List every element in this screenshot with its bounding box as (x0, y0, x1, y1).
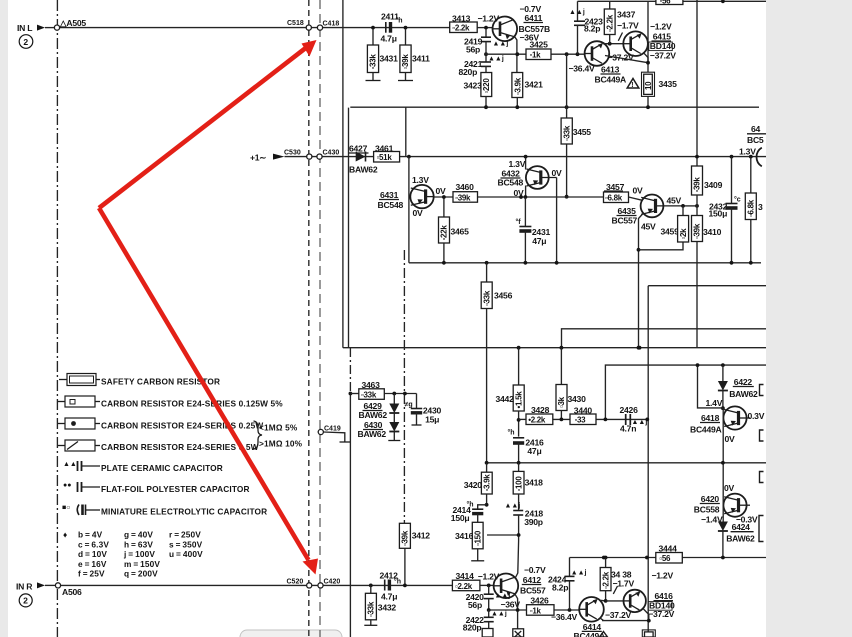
capacitor C2420 56p (488, 585, 490, 594)
svg-text:▫39k: ▫39k (455, 193, 471, 202)
svg-text:▫2k: ▫2k (679, 228, 688, 240)
svg-text:q = 200V: q = 200V (124, 569, 158, 579)
svg-text:C530: C530 (284, 150, 301, 157)
svg-text:BAW62: BAW62 (359, 410, 388, 420)
svg-text:3459: 3459 (661, 227, 680, 237)
wire 6415 emitter to 3435 (644, 53, 649, 63)
svg-text:BC5: BC5 (747, 135, 764, 145)
node C518 (306, 25, 311, 30)
svg-text:0.3V: 0.3V (748, 411, 765, 421)
svg-text:4.7μ: 4.7μ (381, 34, 397, 44)
svg-text:820p: 820p (459, 67, 478, 77)
svg-text:▫56: ▫56 (660, 0, 672, 6)
junction (604, 418, 608, 422)
svg-text:3416: 3416 (455, 531, 474, 541)
svg-text:0V: 0V (514, 188, 525, 198)
junction (517, 533, 521, 537)
junction 6412 base (487, 584, 491, 588)
resistor R3437 2.2k (609, 1, 611, 9)
wire 6432 base down (556, 178, 558, 263)
svg-text:>1MΩ 10%: >1MΩ 10% (259, 439, 303, 449)
svg-text:3430: 3430 (568, 394, 587, 404)
svg-text:3455: 3455 (573, 127, 592, 137)
svg-text:°c: °c (734, 196, 741, 204)
junction (442, 195, 446, 199)
svg-text:MINIATURE ELECTROLYTIC CAPACIT: MINIATURE ELECTROLYTIC CAPACITOR (101, 507, 267, 517)
svg-text:15μ: 15μ (425, 415, 439, 425)
svg-text:1.3V: 1.3V (739, 147, 756, 157)
svg-text:3425: 3425 (530, 40, 549, 50)
transistor Q6414 BC449A (579, 597, 604, 622)
svg-text:r = 250V: r = 250V (169, 530, 201, 540)
svg-text:−1.2V: −1.2V (652, 571, 674, 581)
capacitor C2422 820p (488, 610, 490, 617)
resistor R3434 partial (642, 630, 655, 637)
junction (645, 556, 649, 560)
svg-text:150μ: 150μ (709, 209, 728, 219)
svg-text:3465: 3465 (451, 227, 470, 237)
svg-text:6413: 6413 (601, 65, 620, 75)
slash 6416 base (613, 586, 617, 594)
junction (646, 105, 650, 109)
svg-text:−1.2V: −1.2V (478, 14, 500, 24)
svg-text:6415: 6415 (653, 32, 672, 42)
wire 6416 collector down (643, 608, 649, 620)
junction 2423 bottom (576, 52, 580, 56)
svg-text:FLAT-FOIL POLYESTER CAPACITOR: FLAT-FOIL POLYESTER CAPACITOR (101, 484, 250, 494)
svg-text:▫56: ▫56 (659, 554, 671, 563)
node C430 (317, 154, 322, 159)
svg-text:3431: 3431 (380, 54, 399, 64)
svg-text:▫39k: ▫39k (693, 177, 702, 193)
junction (721, 406, 725, 410)
svg-text:▲▲j: ▲▲j (493, 41, 509, 48)
svg-text:−36.4V: −36.4V (551, 612, 577, 622)
svg-text:2426: 2426 (620, 405, 639, 415)
arrow +1 (273, 154, 285, 160)
junction (519, 195, 523, 199)
svg-text:BC548: BC548 (378, 200, 404, 210)
svg-text:−36.4V: −36.4V (569, 64, 595, 74)
capacitor C2421 820p (485, 54, 487, 62)
wire lower emitter rail y620 (602, 620, 649, 622)
transistor Q6420 BC558 (723, 494, 746, 517)
svg-text:▫33k: ▫33k (361, 390, 377, 399)
svg-text:56p: 56p (468, 600, 482, 610)
svg-text:▫39k: ▫39k (401, 530, 410, 546)
wire 6414 emitter down (600, 618, 603, 620)
wire tone node y419 (553, 418, 648, 420)
svg-text:3409: 3409 (704, 180, 723, 190)
svg-text:4.7n: 4.7n (620, 424, 636, 434)
dashed bus line C4xx (319, 0, 321, 637)
junction (695, 204, 699, 208)
svg-text:0V: 0V (436, 186, 447, 196)
svg-text:▲▲j: ▲▲j (495, 593, 511, 600)
connector 2 circled lower (19, 594, 32, 607)
svg-text:▫100: ▫100 (514, 476, 523, 492)
svg-text:♦: ♦ (63, 530, 67, 540)
wire 6435 collector row (683, 205, 697, 207)
resistor R3408 6.8k (749, 155, 753, 159)
svg-text:•2.2k: •2.2k (528, 416, 546, 425)
svg-text:▫22k: ▫22k (440, 225, 449, 241)
resistor R3420 3.9k (485, 461, 489, 465)
svg-text:6431: 6431 (380, 190, 399, 200)
resistor R3416 150 (477, 514, 479, 523)
junction 2412 right (403, 584, 407, 588)
svg-text:IN L: IN L (17, 23, 32, 33)
arrow IN R (37, 582, 45, 588)
junction (517, 418, 521, 422)
svg-text:47μ: 47μ (532, 236, 546, 246)
svg-text:▫39k: ▫39k (401, 54, 410, 70)
resistor R3430 3k (560, 346, 564, 350)
svg-text:▫6.8k: ▫6.8k (605, 194, 623, 203)
node C419 (318, 429, 323, 434)
svg-text:8.2p: 8.2p (552, 583, 568, 593)
svg-text:▫3.9k: ▫3.9k (482, 474, 491, 492)
arrow IN L (37, 25, 45, 31)
junction (608, 42, 612, 46)
svg-text:CARBON RESISTOR E24-SERIES 0.5: CARBON RESISTOR E24-SERIES 0.5W (101, 442, 259, 452)
svg-text:BC557: BC557 (612, 216, 638, 226)
svg-text:3435: 3435 (659, 79, 678, 89)
svg-text:°f: °f (516, 218, 522, 226)
svg-text:▲▲j: ▲▲j (569, 9, 585, 16)
wire top rail drop x648 (647, 1, 649, 72)
svg-text:j = 100V: j = 100V (123, 549, 155, 559)
svg-text:▫51k: ▫51k (377, 153, 393, 162)
svg-text:2: 2 (23, 596, 28, 606)
svg-text:3414: 3414 (456, 571, 475, 581)
svg-text:6435: 6435 (618, 206, 637, 216)
warning triangle lower partial (600, 632, 608, 637)
svg-text:BAW62: BAW62 (349, 165, 378, 175)
lower module border vertical (647, 286, 649, 637)
diode D6429 BAW62 (393, 394, 395, 404)
bottom tooltip fragment (240, 630, 342, 637)
svg-text:C518: C518 (287, 20, 304, 27)
junction 3463 left (349, 392, 353, 396)
junction 6411 base (484, 26, 488, 30)
junction (515, 105, 519, 109)
svg-text:150μ: 150μ (451, 513, 470, 523)
svg-text:6422: 6422 (734, 377, 753, 387)
diode D6422 BAW62 (721, 363, 725, 367)
right gray margin (766, 0, 852, 637)
module border left inner (348, 108, 350, 348)
svg-text:0V: 0V (633, 186, 644, 196)
svg-text:▫33: ▫33 (575, 416, 587, 425)
svg-text:●●: ●● (63, 482, 71, 489)
wire 6414 collector right (600, 599, 605, 602)
svg-text:▫2.2k: ▫2.2k (606, 14, 615, 32)
svg-text:1.3V: 1.3V (412, 175, 429, 185)
transistor Q6435 BC557 (641, 195, 664, 218)
junction (696, 363, 700, 367)
node C520 (307, 583, 312, 588)
svg-text:▫220: ▫220 (482, 78, 491, 94)
svg-text:64: 64 (751, 124, 761, 134)
section chain line left (56, 0, 58, 637)
chain line mid (405, 107, 407, 157)
svg-text:C430: C430 (323, 150, 340, 157)
svg-text:▫33k: ▫33k (562, 125, 571, 141)
svg-text:1.4V: 1.4V (706, 398, 723, 408)
junction x649 y620 (647, 619, 651, 623)
wire rail y326 (562, 329, 767, 348)
svg-text:6416: 6416 (655, 591, 674, 601)
capacitor C2412 4.7u (384, 580, 386, 591)
wire y535 stub (487, 534, 519, 536)
end bar C419 (340, 441, 351, 443)
svg-text:≠g: ≠g (405, 402, 413, 409)
connector 2 circled (19, 35, 33, 49)
wire 6413 collector to 6415 base (603, 43, 623, 45)
svg-text:s = 350V: s = 350V (169, 539, 203, 549)
junction (484, 105, 488, 109)
junction (487, 608, 491, 612)
svg-text:6424: 6424 (732, 522, 751, 532)
svg-text:°h: °h (396, 17, 403, 25)
junction (645, 418, 649, 422)
svg-text:f = 25V: f = 25V (78, 569, 105, 579)
svg-text:d = 10V: d = 10V (78, 549, 107, 559)
junction (403, 392, 407, 396)
wire output node y557 (570, 557, 767, 559)
node A505 (54, 25, 59, 30)
resistor R3411 39k (405, 29, 407, 45)
svg-text:BAW62: BAW62 (729, 389, 758, 399)
junction (485, 503, 489, 507)
bracket contact b (760, 430, 764, 441)
svg-text:▲▲: ▲▲ (63, 461, 77, 468)
svg-text:CARBON RESISTOR E24-SERIES 0.2: CARBON RESISTOR E24-SERIES 0.25W (101, 421, 263, 431)
junction (637, 346, 641, 350)
node C418 (317, 25, 322, 30)
svg-text:h = 63V: h = 63V (124, 539, 153, 549)
junction 3438 top (602, 556, 606, 560)
junction 3461 out (407, 155, 411, 159)
svg-text:C420: C420 (324, 579, 341, 586)
resistor R3424 partial (516, 608, 520, 612)
svg-text:IN R: IN R (16, 582, 33, 592)
resistor R3410 39k (696, 195, 698, 216)
svg-text:BC557: BC557 (520, 586, 546, 596)
wire top supply rail y1.3 (578, 0, 767, 2)
capacitor C2432 150u (730, 155, 734, 159)
junction base cap top (484, 52, 488, 56)
svg-text:c = 6.3V: c = 6.3V (78, 539, 109, 549)
junction 2412 left (369, 584, 373, 588)
resistor R3418 100 (518, 463, 520, 472)
svg-text:°h: °h (508, 429, 515, 437)
svg-text:3460: 3460 (456, 182, 475, 192)
svg-text:820p: 820p (463, 623, 482, 633)
svg-text:6418: 6418 (701, 413, 720, 423)
resistor R3412 39k (399, 523, 410, 548)
svg-text:▫2.2k: ▫2.2k (455, 582, 473, 591)
diode D6430 BAW62 (393, 413, 395, 422)
dashed bus line C5xx (308, 0, 310, 637)
svg-text:+1∼: +1∼ (250, 153, 266, 163)
junction top rail (721, 0, 725, 3)
svg-text:6411: 6411 (525, 13, 543, 23)
wire rail y365 (605, 365, 766, 419)
junction (681, 204, 685, 208)
junction (517, 461, 521, 465)
module border lower-left chain (349, 348, 351, 392)
legend carbon resistor 0.5W (58, 445, 65, 447)
junction (524, 261, 528, 265)
svg-text:CARBON RESISTOR E24-SERIES 0.1: CARBON RESISTOR E24-SERIES 0.125W 5% (101, 399, 283, 409)
wire 6412 emitter down (515, 594, 518, 631)
module border left outer (342, 0, 344, 348)
wire right column x697 (696, 0, 698, 166)
resistor R3432 33k (370, 585, 372, 593)
wire emitter row y197 (434, 196, 604, 198)
svg-text:2: 2 (23, 37, 28, 47)
red arrow lower (99, 208, 309, 560)
svg-text:3: 3 (758, 202, 763, 212)
svg-text:■○: ■○ (62, 505, 70, 512)
svg-text:▲▲j: ▲▲j (491, 611, 507, 618)
wire 3463 left lead (350, 393, 358, 395)
svg-text:0V: 0V (413, 208, 424, 218)
legend carbon resistor 0.25W (58, 423, 65, 425)
svg-text:3426: 3426 (530, 596, 549, 606)
transistor Q6411 BC557B (493, 17, 518, 42)
svg-text:3421: 3421 (525, 80, 544, 90)
wire 697 link to 6418 (698, 365, 723, 408)
junction 2411 right (404, 26, 408, 30)
svg-text:▫33k: ▫33k (482, 290, 491, 306)
svg-text:3410: 3410 (703, 227, 722, 237)
svg-text:▫3.9k: ▫3.9k (513, 77, 522, 95)
svg-text:▫2.2k: ▫2.2k (602, 571, 611, 589)
svg-text:▫33k: ▫33k (369, 54, 378, 70)
svg-text:8.2p: 8.2p (584, 24, 600, 34)
svg-text:3456: 3456 (494, 291, 513, 301)
transistor Q6431 BC548 (410, 185, 433, 208)
wire 6435 collector row 45V (654, 197, 683, 205)
wire 6435 emitter down (639, 214, 644, 348)
capacitor C2431 47u (524, 195, 528, 199)
junction (392, 392, 396, 396)
resistor R3423 220 (485, 66, 487, 72)
junction (442, 261, 446, 265)
resistor R3438 2.2k (604, 556, 608, 560)
svg-text:•1.5k: •1.5k (514, 391, 523, 409)
resistor R3431 33k (372, 29, 374, 45)
svg-text:PLATE CERAMIC CAPACITOR: PLATE CERAMIC CAPACITOR (101, 463, 223, 473)
svg-text:▫39k: ▫39k (693, 223, 702, 239)
svg-text:C418: C418 (323, 21, 340, 28)
svg-text:▫2.2k: ▫2.2k (452, 24, 470, 33)
svg-text:0V: 0V (725, 434, 736, 444)
svg-text:−37.2V: −37.2V (650, 51, 676, 61)
svg-text:BC548: BC548 (498, 178, 524, 188)
junction (637, 248, 641, 252)
slash 6415 base (618, 33, 622, 41)
module border lower-left solid (349, 392, 351, 637)
transistor Q6413 BC449A (585, 41, 610, 66)
junction (646, 61, 650, 65)
junction rail463 x723 (721, 461, 725, 465)
svg-text:−1.7V: −1.7V (613, 579, 635, 589)
transistor Q6416 BD140 (624, 590, 646, 612)
wire lower bias rail y463 (487, 462, 766, 464)
node C420 (318, 583, 323, 588)
wire lower base wire y610 (489, 609, 580, 611)
svg-text:0V: 0V (724, 483, 735, 493)
junction (565, 195, 569, 199)
junction (730, 261, 734, 265)
svg-text:▫1k: ▫1k (530, 51, 542, 60)
junction 2411 left (371, 26, 375, 30)
wire ground rail y348 (343, 347, 766, 349)
junction (555, 261, 559, 265)
junction (565, 52, 569, 56)
end bar diodes (388, 440, 400, 442)
svg-text:▫3k: ▫3k (557, 396, 566, 408)
junction (721, 556, 725, 560)
svg-text:e = 16V: e = 16V (78, 559, 107, 569)
resistor R3409 39k (695, 155, 699, 159)
svg-text:▫1k: ▫1k (530, 606, 542, 615)
svg-text:BC449A: BC449A (595, 75, 627, 85)
resistor R3442 1.5k (517, 346, 521, 350)
wire 6413 emitter diagonal (605, 56, 648, 63)
junction (560, 418, 564, 422)
svg-text:3437: 3437 (617, 10, 636, 20)
wire mid rail y263 (409, 262, 761, 264)
junction (749, 261, 753, 265)
node A506 (55, 583, 60, 588)
svg-text:3420: 3420 (464, 480, 483, 490)
svg-text:!: ! (631, 82, 633, 89)
wire 3459 bottom row (639, 242, 684, 250)
svg-text:BC558: BC558 (694, 505, 720, 515)
left gray margin (0, 0, 8, 637)
legend safety carbon resistor (59, 379, 67, 381)
capacitor C2419 56p (485, 30, 487, 38)
bracket contact d (759, 516, 764, 542)
svg-text:A506: A506 (62, 587, 82, 597)
bracket contact a (760, 385, 764, 396)
svg-text:u = 400V: u = 400V (169, 549, 203, 559)
svg-text:°h: °h (394, 578, 401, 586)
svg-text:BAW62: BAW62 (358, 429, 387, 439)
legend carbon resistor 0.125W (58, 401, 65, 403)
legend brace (254, 421, 263, 449)
wire 6416 base (606, 600, 624, 602)
wire 6411 collector down (515, 37, 517, 73)
junction (604, 599, 608, 603)
svg-text:10: 10 (644, 81, 653, 90)
svg-text:−1.2V: −1.2V (478, 572, 500, 582)
resistor R3421 3.9k (515, 52, 519, 56)
transistor Q6432 BC548 (526, 166, 549, 189)
svg-text:C520: C520 (287, 579, 304, 586)
svg-text:▫33k: ▫33k (367, 601, 376, 617)
capacitor C2423 8.2p (577, 1, 579, 21)
svg-text:3423: 3423 (464, 81, 483, 91)
svg-text:−1.7V: −1.7V (617, 21, 639, 31)
transistor Q6415 BD140 (623, 31, 648, 56)
wire IN L line y28 (57, 27, 450, 29)
